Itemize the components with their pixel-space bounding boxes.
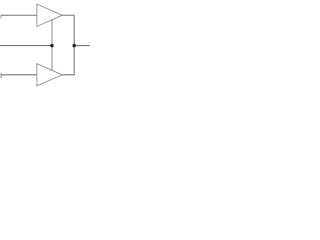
wire top input <box>1 14 37 16</box>
wire output right <box>74 45 90 47</box>
wire middle input <box>0 45 52 47</box>
junction dot B <box>73 44 76 47</box>
port tick input 3 <box>0 73 2 78</box>
wire link vertical <box>51 20 53 71</box>
buffer U2 <box>37 64 62 86</box>
junction dot A <box>50 44 53 47</box>
wire bottom input <box>1 74 37 76</box>
wire U1 output <box>62 15 74 45</box>
background <box>0 0 90 90</box>
wire U2 output <box>62 46 74 75</box>
port tick input 1 <box>0 15 2 19</box>
buffer U1 <box>37 4 62 26</box>
